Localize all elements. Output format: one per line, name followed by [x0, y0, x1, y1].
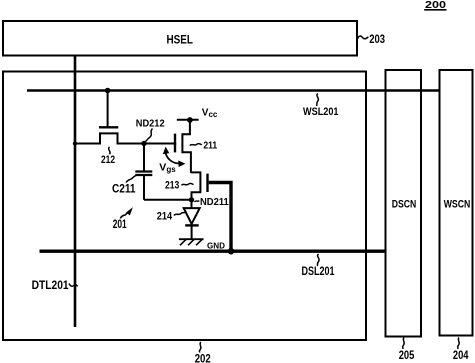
svg-text:WSL201: WSL201	[303, 106, 339, 118]
drain-source path of 213	[191, 172, 201, 199]
gate bar of 212	[99, 126, 118, 128]
ground symbol	[179, 239, 204, 245]
leader squiggle to 204	[458, 338, 460, 350]
transistor 213 (switching transistor)	[191, 172, 208, 199]
wire WSL201 (write scan line, horizontal)	[27, 89, 440, 92]
svg-text:DSL201: DSL201	[302, 266, 335, 278]
svg-text:GND: GND	[207, 240, 225, 250]
anode lead of 214	[191, 200, 193, 208]
node ND212	[141, 141, 146, 146]
gate lead of 211	[174, 143, 176, 145]
leader squiggle to 205	[403, 338, 405, 350]
svg-text:HSEL: HSEL	[167, 35, 194, 47]
node ND211	[189, 197, 194, 202]
leader squiggle C211	[126, 175, 137, 183]
top plate of C211	[135, 170, 152, 172]
top lead of C211	[143, 144, 145, 172]
svg-text:ND211: ND211	[200, 196, 229, 208]
channel path of 212	[75, 133, 144, 143]
svg-text:214: 214	[157, 210, 173, 222]
svg-text:DTL201: DTL201	[32, 280, 70, 292]
transistor 211 (drive transistor)	[174, 120, 191, 173]
wire gate of 213 to DSL201 (thick)	[209, 183, 231, 252]
bottom plate of C211	[135, 174, 152, 176]
bottom lead of C211	[143, 175, 145, 200]
wire node ND211 horizontal	[144, 199, 192, 201]
diode 214 (light emitting element)	[184, 200, 200, 239]
leader squiggle DTL201	[69, 284, 78, 287]
leader squiggle 213	[182, 183, 194, 185]
anode triangle of 214	[184, 208, 200, 224]
junction dot WSL201 / gate of 212	[105, 88, 111, 94]
svg-text:C211: C211	[112, 184, 136, 196]
svg-text:ND212: ND212	[136, 118, 165, 130]
block WSCN (write scanner)	[440, 70, 473, 336]
transistor 212 (sampling transistor)	[75, 91, 144, 144]
power Vcc terminal	[177, 117, 199, 123]
leader squiggle to 202	[199, 342, 201, 353]
junction dot DSL201 / 213 gate wire	[228, 248, 235, 255]
svg-text:201: 201	[113, 219, 127, 231]
block pixel array 202	[3, 72, 366, 341]
leader squiggle 212	[109, 147, 111, 154]
gate bar of 213	[206, 174, 208, 192]
block DSCN (drive scanner)	[386, 70, 422, 337]
junction dot DTL201 / source of 212	[73, 141, 77, 145]
svg-text:204: 204	[453, 350, 469, 362]
gate bar of 211	[174, 134, 176, 153]
svg-text:Vcc: Vcc	[202, 108, 218, 119]
leader squiggle DSL201	[317, 254, 319, 266]
svg-text:205: 205	[399, 350, 415, 362]
svg-text:211: 211	[203, 139, 217, 151]
svg-text:202: 202	[195, 354, 211, 363]
leader squiggle 214	[174, 213, 185, 216]
wire DTL201 (data line, vertical)	[74, 56, 77, 328]
leader squiggle ND211	[195, 201, 200, 202]
arrow Vgs (curved double-headed)	[163, 147, 186, 167]
svg-text:203: 203	[369, 34, 385, 46]
capacitor C211	[135, 144, 152, 200]
gate lead of 212	[107, 91, 109, 128]
arrow 201	[120, 207, 133, 218]
leader squiggle to 203	[358, 36, 369, 39]
drain-source path of 211	[182, 120, 191, 173]
wire ND212 to gate of 211	[144, 143, 174, 145]
svg-text:213: 213	[165, 179, 179, 191]
block HSEL (horizontal selector)	[3, 21, 357, 56]
wire DSL201 (drive scan line, horizontal, thick)	[40, 249, 386, 252]
cathode lead of 214	[191, 225, 193, 239]
svg-text:212: 212	[101, 154, 115, 166]
leader squiggle ND212	[146, 129, 153, 142]
svg-text:WSCN: WSCN	[444, 199, 471, 211]
leader squiggle 211	[190, 144, 202, 146]
svg-text:DSCN: DSCN	[392, 199, 417, 211]
label 200 (figure reference)	[424, 0, 446, 11]
leader squiggle WSL201	[317, 94, 319, 107]
cathode bar of 214	[185, 224, 199, 226]
